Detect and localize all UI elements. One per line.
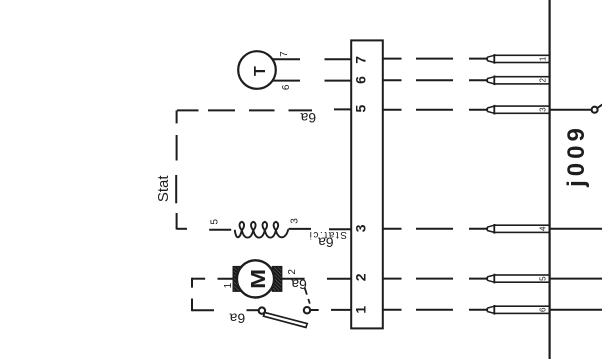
svg-text:5: 5 [353,104,369,112]
wire sensor pin6 to strip track 6 [273,80,351,82]
wire to coil pin 5 [209,229,231,231]
connector terminal pin 1 [487,54,549,64]
connector terminal pin 2 [487,76,549,86]
wire motor pin 2 [282,278,305,280]
dashed wire strip track3 to pin 4 [382,228,486,230]
connector strip X1 [351,40,383,328]
svg-text:2: 2 [539,78,548,83]
wire to switch contact [247,309,259,311]
connector terminal pin 5 [487,274,549,284]
svg-text:3: 3 [539,107,548,112]
svg-text:5: 5 [539,276,548,281]
dashed corner into coil wire [177,228,187,230]
svg-text:6: 6 [281,84,292,90]
wire motor pin 1 [218,278,235,280]
wire switch to strip track 1 [311,309,351,311]
wire pin3 to open contact [550,109,592,111]
svg-text:2: 2 [353,273,369,281]
dashed wire strip track7 to pin 1 [382,58,486,60]
svg-text:5: 5 [210,219,221,225]
svg-text:6a: 6a [300,110,316,126]
wire coil pin 3 out [289,228,312,230]
motor M1 body [237,260,274,297]
wire pin4 continuation [550,228,602,230]
connector terminal pin 3 [487,105,549,115]
svg-text:2: 2 [287,269,298,275]
dashed wire strip track1 to pin 6 [382,309,486,311]
svg-text:4: 4 [539,226,548,231]
wire into strip track 3 [329,228,351,230]
svg-text:M: M [247,269,270,289]
dashed wire strip track6 to pin 2 [382,79,486,81]
dashed wire strip track5 to pin 3 [382,109,486,111]
motor M1 brush right [272,267,281,292]
dashed wire corner to motor pin 1 [192,278,214,312]
temperature sensor circle T [238,51,276,89]
svg-text:6a: 6a [229,310,245,326]
open contact terminal [592,104,602,113]
svg-text:Stat: Stat [155,175,172,203]
bus line (page edge) [548,0,550,359]
wire sensor pin7 to strip track 7 [273,58,352,60]
svg-text:6: 6 [539,307,548,312]
svg-text:1: 1 [539,56,548,61]
svg-text:6: 6 [353,76,369,84]
inductor coil L (4 loops) [235,222,288,238]
dashed wire strip track2 to pin 5 [382,278,486,280]
svg-text:3: 3 [353,224,369,232]
switch S1 contact left [259,307,265,313]
svg-text:1: 1 [223,282,234,288]
svg-text:7: 7 [353,56,369,64]
wire pin5 continuation [550,278,602,280]
svg-text:6a: 6a [318,234,334,250]
switch S1 lever [264,312,308,327]
svg-text:1: 1 [353,306,369,314]
wire into strip track 2 [327,278,351,280]
motor M1 brush left [233,267,242,292]
switch actuator dashed link [305,288,310,304]
wire pin6 continuation [550,309,602,311]
dashed enclosure line Stat (vertical) [175,110,177,229]
connector terminal pin 4 [487,224,549,234]
connector terminal pin 6 [487,305,549,315]
svg-text:T: T [252,66,269,76]
svg-text:j009: j009 [563,124,590,188]
dashed wire to strip track 5 [177,109,351,110]
svg-text:3: 3 [290,218,301,224]
switch S1 contact right [304,307,310,313]
svg-text:7: 7 [279,51,290,57]
